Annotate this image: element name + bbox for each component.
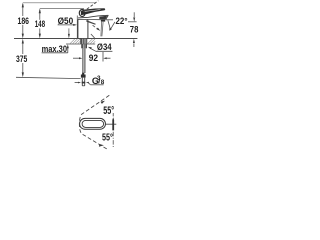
swing arc lower arrowhead bbox=[99, 144, 104, 147]
water stream bbox=[100, 22, 103, 37]
svg-text:Ø50: Ø50 bbox=[58, 16, 74, 26]
inner capsule bbox=[82, 120, 103, 127]
dimension 186 vertical line bbox=[22, 3, 96, 39]
supply hose double line bbox=[82, 48, 84, 73]
dashed angle arc with arrow bbox=[93, 25, 99, 30]
svg-text:Ø34: Ø34 bbox=[97, 42, 112, 52]
svg-text:55°: 55° bbox=[103, 105, 114, 117]
deck cross-section hatch bbox=[66, 43, 95, 45]
mounting nut bbox=[81, 44, 87, 48]
handle hub bbox=[79, 10, 85, 17]
body cap / spout top bbox=[78, 15, 108, 18]
horizontal center tick bbox=[106, 123, 117, 125]
G3/8 label leaders bbox=[75, 82, 104, 85]
centerline thick dash bbox=[112, 117, 114, 130]
centerline dash-dot bbox=[112, 113, 114, 116]
svg-text:22°: 22° bbox=[116, 16, 128, 26]
faucet body sides bbox=[78, 19, 88, 38]
aerator bbox=[101, 19, 105, 21]
hose end fitting bbox=[82, 73, 84, 75]
dimension 375 vertical line bbox=[16, 39, 81, 79]
svg-text:78: 78 bbox=[130, 25, 139, 36]
svg-text:148: 148 bbox=[35, 19, 45, 29]
dashed raised handle bbox=[83, 1, 98, 12]
swing arc dashed bbox=[79, 95, 109, 149]
inner wedge stroke bbox=[86, 20, 96, 24]
dimension 148 vertical line bbox=[39, 8, 84, 38]
svg-text:186: 186 bbox=[18, 16, 30, 27]
svg-text:92: 92 bbox=[89, 53, 98, 64]
deck reference line bbox=[14, 38, 137, 40]
dimension 78 bbox=[128, 12, 137, 47]
svg-text:375: 375 bbox=[16, 54, 28, 65]
G3/8 threaded tail bbox=[81, 78, 83, 86]
spout tip dark band bbox=[99, 16, 107, 20]
outer capsule bbox=[80, 118, 106, 129]
svg-text:8: 8 bbox=[101, 79, 105, 86]
swing arc upper arrowhead bbox=[101, 101, 106, 104]
shank through deck bbox=[80, 39, 87, 44]
label 22deg bbox=[106, 19, 113, 21]
handle blade bbox=[81, 8, 106, 15]
svg-text:55°: 55° bbox=[102, 133, 113, 144]
